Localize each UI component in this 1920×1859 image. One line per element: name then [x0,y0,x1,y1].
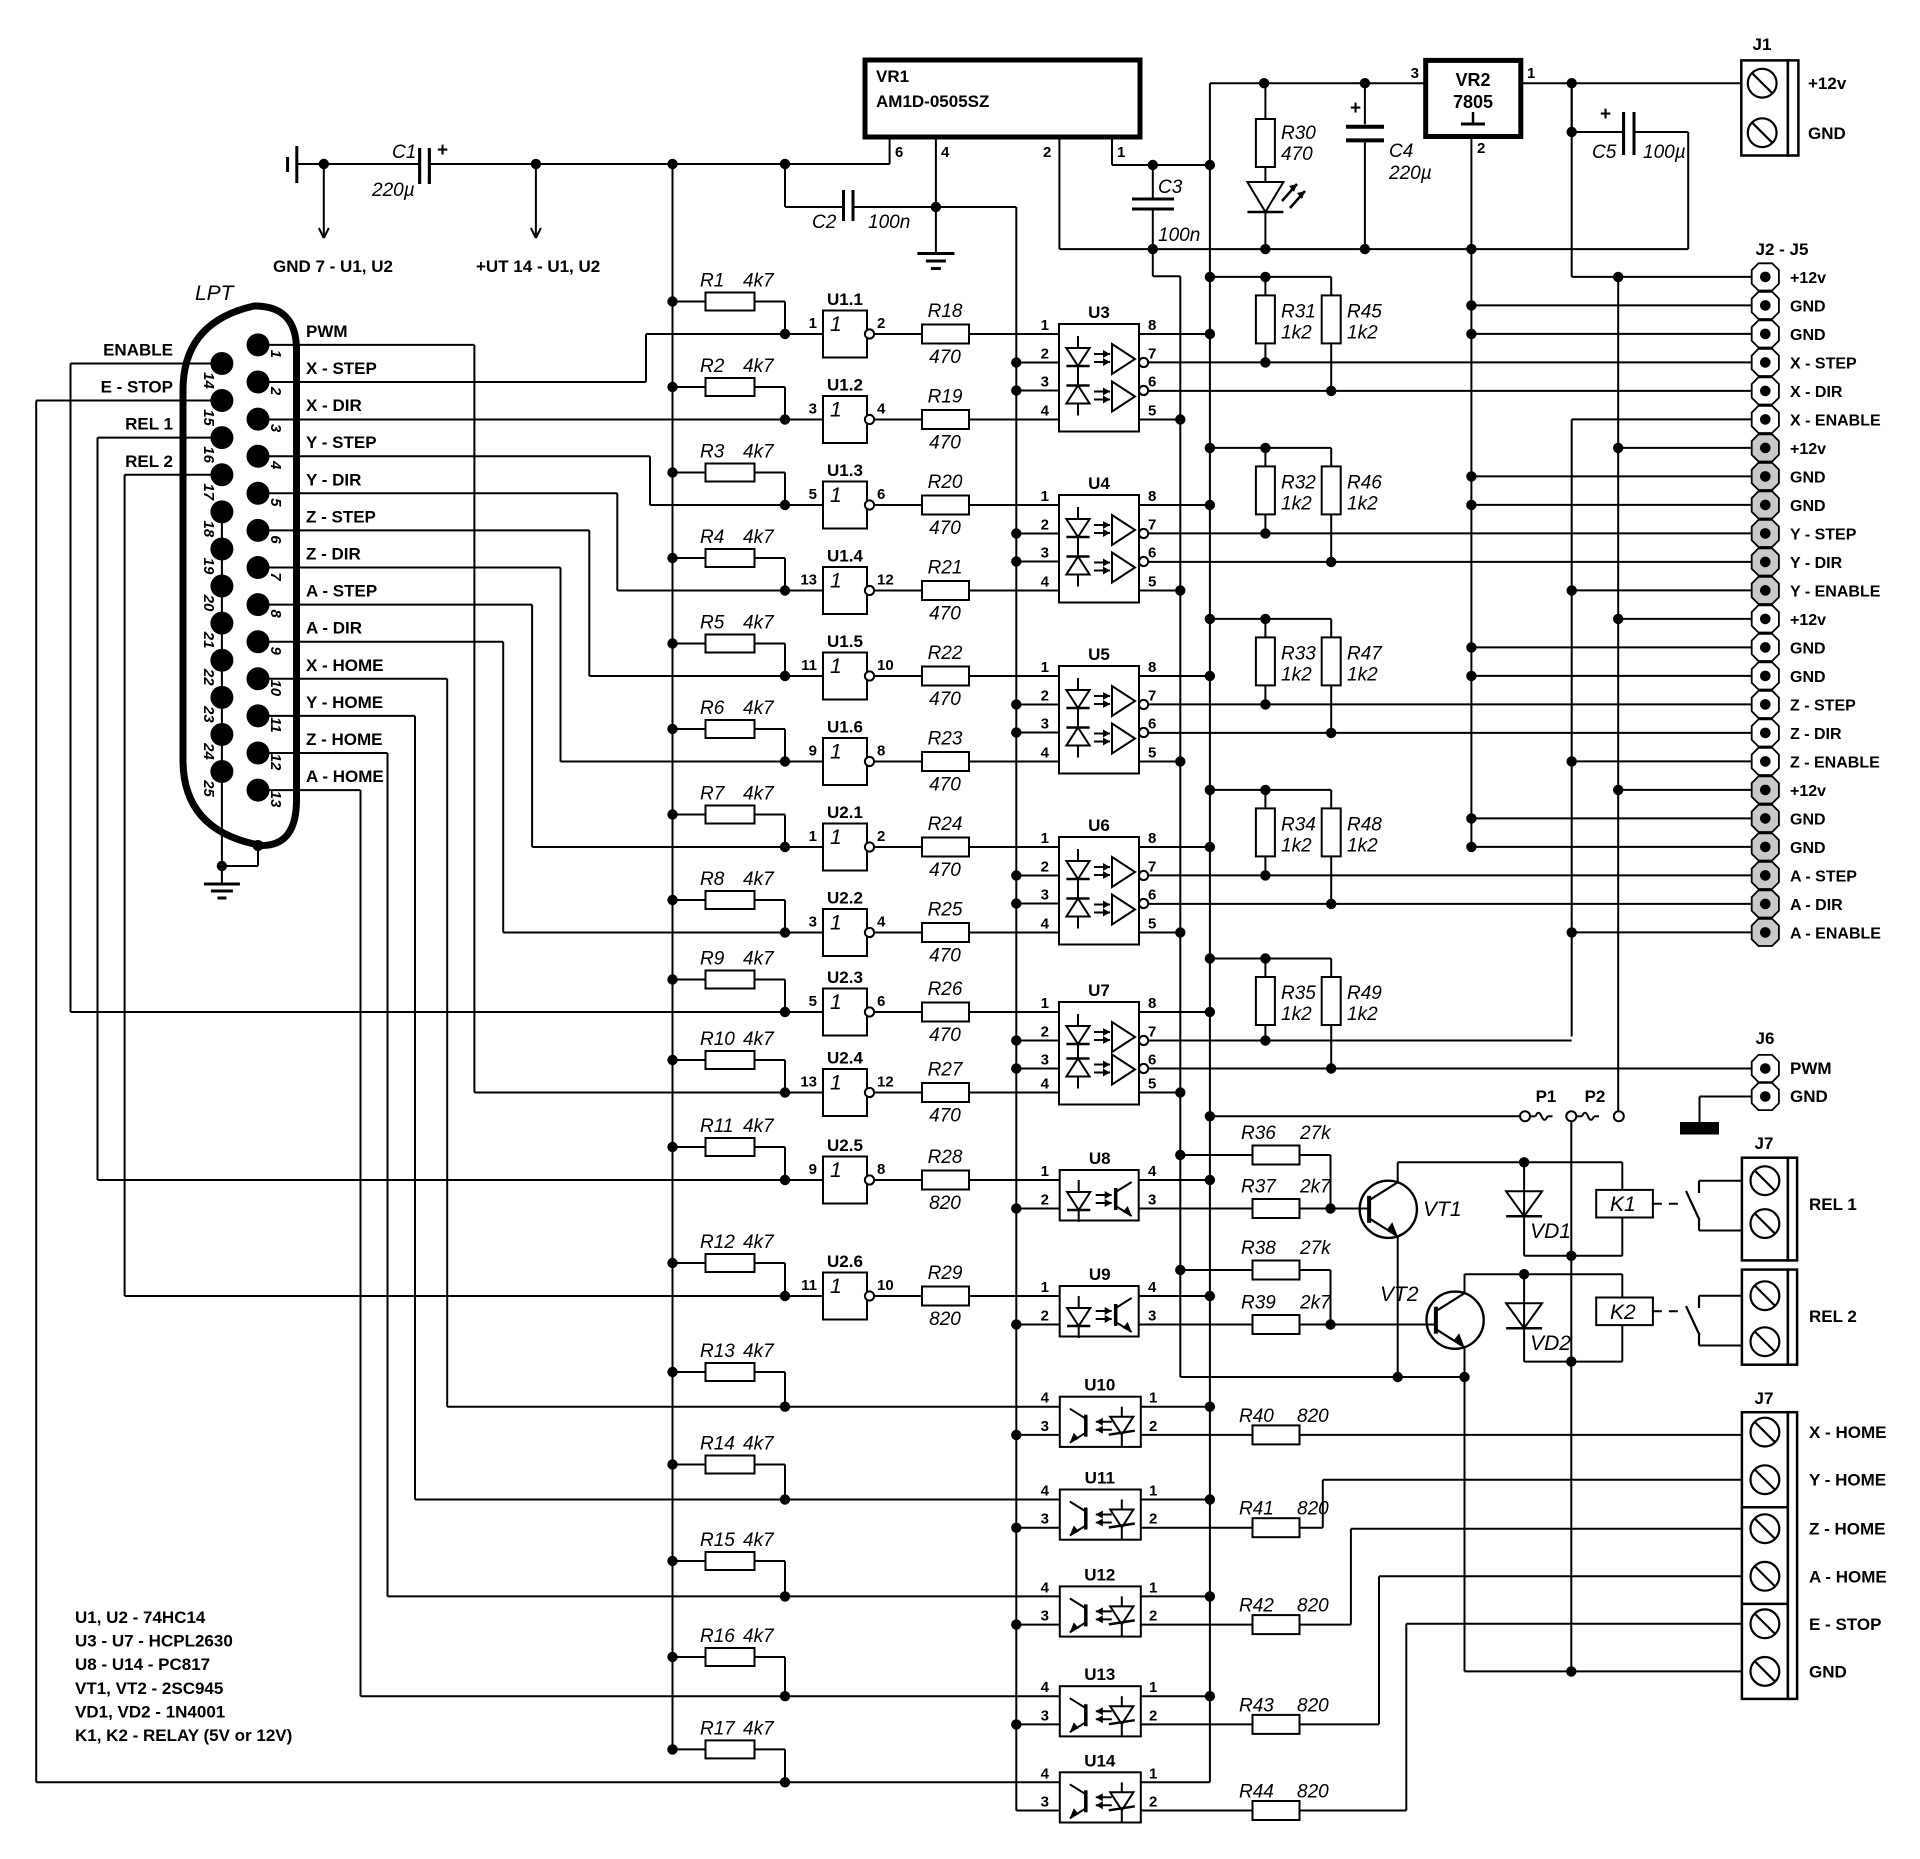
svg-text:1k2: 1k2 [1281,835,1312,856]
svg-text:6: 6 [1148,1052,1156,1069]
svg-text:5: 5 [809,486,817,503]
svg-text:GND: GND [1809,1662,1847,1681]
svg-text:VR1: VR1 [876,67,909,86]
svg-text:X - HOME: X - HOME [306,656,383,675]
svg-text:820: 820 [1297,1406,1329,1427]
svg-text:20: 20 [200,594,217,612]
svg-text:A - STEP: A - STEP [1790,868,1857,885]
svg-text:4: 4 [1041,1579,1050,1596]
svg-text:+: + [437,140,448,161]
svg-text:1: 1 [1117,144,1125,161]
svg-text:4k7: 4k7 [743,1434,775,1455]
svg-text:R26: R26 [928,979,963,1000]
svg-text:2: 2 [1041,517,1049,534]
svg-text:11: 11 [801,657,817,674]
svg-text:U1.4: U1.4 [827,547,863,566]
svg-text:3: 3 [1041,1511,1049,1528]
svg-text:K1, K2 - RELAY (5V or 12V): K1, K2 - RELAY (5V or 12V) [75,1726,292,1745]
svg-text:1: 1 [1527,65,1535,82]
svg-text:1: 1 [1041,995,1049,1012]
svg-text:J1: J1 [1753,35,1772,54]
svg-text:R44: R44 [1239,1782,1274,1803]
svg-text:3: 3 [1411,65,1419,82]
svg-text:4: 4 [877,401,886,418]
svg-text:GND: GND [1790,1087,1828,1106]
svg-text:AM1D-0505SZ: AM1D-0505SZ [876,92,989,111]
svg-text:3: 3 [1041,887,1049,904]
svg-text:J2 - J5: J2 - J5 [1756,240,1809,259]
svg-text:Y - DIR: Y - DIR [1790,555,1843,572]
svg-text:R49: R49 [1347,983,1382,1004]
svg-text:R8: R8 [700,869,725,890]
svg-text:8: 8 [877,743,885,760]
svg-text:1: 1 [1149,1679,1157,1696]
svg-text:U4: U4 [1088,474,1110,493]
svg-text:24: 24 [200,742,217,760]
svg-text:1k2: 1k2 [1347,1004,1378,1025]
svg-text:E - STOP: E - STOP [101,378,173,397]
svg-text:R30: R30 [1281,123,1316,144]
svg-text:U2.1: U2.1 [827,803,863,822]
svg-text:Z - STEP: Z - STEP [306,507,376,526]
svg-text:VT1, VT2 - 2SC945: VT1, VT2 - 2SC945 [75,1679,223,1698]
svg-text:Y - STEP: Y - STEP [306,433,377,452]
svg-text:5: 5 [1148,745,1156,762]
svg-text:2: 2 [1149,1707,1157,1724]
svg-text:6: 6 [877,486,885,503]
svg-text:4: 4 [267,460,284,470]
svg-text:+12v: +12v [1790,783,1826,800]
svg-text:1k2: 1k2 [1347,322,1378,343]
svg-text:R46: R46 [1347,472,1382,493]
svg-text:R33: R33 [1281,643,1316,664]
svg-text:4k7: 4k7 [743,1718,775,1739]
svg-text:1: 1 [267,350,284,358]
svg-text:1k2: 1k2 [1281,664,1312,685]
svg-text:1: 1 [830,1159,842,1182]
svg-text:3: 3 [809,914,817,931]
svg-text:U3: U3 [1088,303,1110,322]
svg-text:1: 1 [1041,659,1049,676]
svg-text:R31: R31 [1281,301,1316,322]
svg-text:470: 470 [929,1025,961,1046]
svg-text:15: 15 [200,409,217,426]
svg-text:2: 2 [1149,1794,1157,1811]
svg-text:1k2: 1k2 [1281,1004,1312,1025]
svg-text:U5: U5 [1088,645,1110,664]
svg-text:2: 2 [1149,1608,1157,1625]
svg-text:R18: R18 [928,301,963,322]
svg-text:1: 1 [1041,1279,1049,1296]
svg-text:820: 820 [929,1193,961,1214]
svg-text:VR2: VR2 [1455,70,1490,90]
svg-text:6: 6 [877,993,885,1010]
svg-text:R17: R17 [700,1718,736,1739]
svg-text:R28: R28 [928,1147,963,1168]
svg-text:U9: U9 [1089,1265,1111,1284]
svg-text:4: 4 [1041,1483,1050,1500]
svg-text:8: 8 [1148,830,1156,847]
svg-text:1: 1 [1149,1390,1157,1407]
svg-text:12: 12 [267,754,284,771]
svg-text:10: 10 [267,679,284,696]
svg-text:4: 4 [1041,745,1050,762]
svg-text:3: 3 [1041,374,1049,391]
svg-text:23: 23 [200,705,217,723]
svg-text:4k7: 4k7 [743,1530,775,1551]
svg-text:PWM: PWM [1790,1059,1832,1078]
svg-text:3: 3 [1041,545,1049,562]
svg-text:R12: R12 [700,1232,735,1253]
svg-text:X - DIR: X - DIR [1790,384,1843,401]
svg-text:Y - HOME: Y - HOME [1809,1471,1886,1490]
svg-text:X - ENABLE: X - ENABLE [1790,412,1881,429]
svg-text:7: 7 [1148,859,1156,876]
svg-text:1: 1 [809,315,817,332]
svg-text:2: 2 [267,386,284,396]
svg-text:GND: GND [1790,327,1826,344]
svg-text:4: 4 [1148,1279,1157,1296]
svg-text:2: 2 [1477,140,1485,157]
svg-text:4k7: 4k7 [743,527,775,548]
svg-text:R27: R27 [928,1060,964,1081]
svg-text:2k7: 2k7 [1299,1293,1332,1314]
svg-text:R34: R34 [1281,814,1316,835]
svg-text:6: 6 [267,535,284,544]
svg-text:R4: R4 [700,527,724,548]
svg-text:+12v: +12v [1790,270,1826,287]
svg-text:11: 11 [267,717,284,733]
svg-text:R47: R47 [1347,643,1383,664]
svg-text:1: 1 [830,313,842,336]
svg-text:2: 2 [1149,1511,1157,1528]
svg-text:R36: R36 [1241,1123,1276,1144]
svg-text:R9: R9 [700,949,725,970]
svg-text:1: 1 [830,991,842,1014]
svg-text:7: 7 [1148,688,1156,705]
svg-text:1: 1 [830,1275,842,1298]
svg-text:+UT 14 - U1, U2: +UT 14 - U1, U2 [476,257,600,276]
svg-text:1: 1 [809,828,817,845]
svg-text:R35: R35 [1281,983,1316,1004]
svg-text:R11: R11 [700,1116,733,1137]
svg-text:470: 470 [929,689,961,710]
svg-text:5: 5 [809,993,817,1010]
svg-text:GND: GND [1790,298,1826,315]
svg-text:GND: GND [1790,811,1826,828]
svg-text:470: 470 [929,1106,961,1127]
svg-text:X - STEP: X - STEP [306,359,377,378]
svg-text:1: 1 [830,912,842,935]
svg-text:3: 3 [1041,1794,1049,1811]
svg-text:4k7: 4k7 [743,271,775,292]
svg-text:U11: U11 [1085,1469,1115,1488]
svg-text:R6: R6 [700,698,725,719]
svg-text:3: 3 [1148,1308,1156,1325]
svg-text:LPT: LPT [195,282,236,305]
svg-text:6: 6 [1148,716,1156,733]
svg-text:2: 2 [1149,1418,1157,1435]
svg-text:8: 8 [1148,317,1156,334]
svg-text:8: 8 [1148,995,1156,1012]
svg-text:4: 4 [1041,1076,1050,1093]
svg-text:470: 470 [929,347,961,368]
svg-text:R42: R42 [1239,1596,1274,1617]
svg-text:C1: C1 [392,142,416,163]
svg-text:+: + [1350,98,1361,119]
svg-text:+12v: +12v [1808,74,1847,93]
svg-text:Y - STEP: Y - STEP [1790,526,1857,543]
svg-text:REL 1: REL 1 [1809,1195,1857,1214]
svg-text:6: 6 [1148,374,1156,391]
svg-text:820: 820 [1297,1596,1329,1617]
svg-text:Y - ENABLE: Y - ENABLE [1790,583,1881,600]
svg-text:+: + [1600,104,1611,125]
svg-text:J7: J7 [1755,1389,1774,1408]
svg-text:E - STOP: E - STOP [1809,1615,1881,1634]
svg-text:ENABLE: ENABLE [103,340,173,359]
svg-text:A - ENABLE: A - ENABLE [1790,925,1881,942]
svg-text:2: 2 [1041,688,1049,705]
svg-text:R48: R48 [1347,814,1382,835]
svg-text:1: 1 [1041,1163,1049,1180]
svg-text:1k2: 1k2 [1347,493,1378,514]
svg-text:7: 7 [267,572,284,581]
svg-text:6: 6 [1148,545,1156,562]
svg-text:2k7: 2k7 [1299,1177,1332,1198]
svg-text:7: 7 [1148,517,1156,534]
svg-text:1: 1 [830,484,842,507]
svg-text:U2.2: U2.2 [827,889,863,908]
svg-text:U7: U7 [1088,981,1110,1000]
svg-text:3: 3 [1041,1418,1049,1435]
svg-text:820: 820 [1297,1782,1329,1803]
svg-text:1: 1 [1041,317,1049,334]
svg-text:Z - HOME: Z - HOME [306,730,383,749]
svg-text:R40: R40 [1239,1406,1274,1427]
svg-text:GND: GND [1790,640,1826,657]
svg-text:1: 1 [830,655,842,678]
svg-text:4k7: 4k7 [743,442,775,463]
svg-text:4k7: 4k7 [743,1626,775,1647]
svg-text:R2: R2 [700,356,725,377]
svg-text:820: 820 [929,1309,961,1330]
svg-text:A - STEP: A - STEP [306,582,377,601]
svg-text:U2.3: U2.3 [827,968,863,987]
svg-text:R1: R1 [700,271,724,292]
svg-text:3: 3 [1041,1608,1049,1625]
svg-text:R13: R13 [700,1341,735,1362]
svg-text:5: 5 [1148,403,1156,420]
svg-text:A - DIR: A - DIR [1790,897,1843,914]
svg-text:R25: R25 [928,900,963,921]
svg-text:4k7: 4k7 [743,356,775,377]
svg-text:470: 470 [929,860,961,881]
svg-text:7: 7 [1148,1024,1156,1041]
svg-text:4k7: 4k7 [743,698,775,719]
svg-text:C5: C5 [1592,142,1617,163]
svg-text:13: 13 [267,791,284,808]
svg-text:U1.2: U1.2 [827,376,863,395]
svg-text:2: 2 [1041,1308,1049,1325]
svg-text:1k2: 1k2 [1281,493,1312,514]
svg-text:13: 13 [800,1074,817,1091]
svg-text:A - HOME: A - HOME [306,767,384,786]
svg-text:10: 10 [877,1277,894,1294]
svg-text:U8: U8 [1089,1149,1111,1168]
svg-text:8: 8 [267,609,284,618]
svg-text:18: 18 [200,521,217,538]
svg-text:2: 2 [1041,346,1049,363]
svg-text:J6: J6 [1756,1029,1775,1048]
svg-text:Z - DIR: Z - DIR [1790,726,1842,743]
svg-text:VT1: VT1 [1423,1198,1462,1221]
svg-text:5: 5 [1148,1076,1156,1093]
svg-text:2: 2 [877,828,885,845]
svg-text:2: 2 [1041,859,1049,876]
svg-text:2: 2 [1041,1024,1049,1041]
svg-text:1: 1 [830,826,842,849]
svg-text:4k7: 4k7 [743,1341,775,1362]
svg-text:R16: R16 [700,1626,735,1647]
svg-text:R10: R10 [700,1029,735,1050]
svg-text:9: 9 [809,743,817,760]
svg-text:R20: R20 [928,472,963,493]
svg-text:K1: K1 [1610,1193,1636,1216]
svg-text:470: 470 [929,518,961,539]
svg-text:6: 6 [895,144,903,161]
svg-text:4: 4 [1041,1765,1050,1782]
svg-text:1: 1 [1041,830,1049,847]
svg-text:+12v: +12v [1790,441,1826,458]
svg-text:1k2: 1k2 [1347,664,1378,685]
svg-text:REL 2: REL 2 [125,452,173,471]
svg-text:100n: 100n [868,212,910,233]
svg-text:PWM: PWM [306,322,348,341]
svg-text:5: 5 [267,498,284,507]
svg-text:3: 3 [1041,716,1049,733]
svg-text:1: 1 [830,741,842,764]
svg-text:1: 1 [1149,1483,1157,1500]
svg-text:VT2: VT2 [1380,1283,1419,1306]
svg-text:4k7: 4k7 [743,613,775,634]
svg-text:1: 1 [1149,1765,1157,1782]
svg-text:1: 1 [1149,1579,1157,1596]
svg-text:13: 13 [800,572,817,589]
svg-text:R38: R38 [1241,1238,1276,1259]
svg-text:GND: GND [1790,840,1826,857]
svg-text:U6: U6 [1088,816,1110,835]
svg-text:11: 11 [801,1277,817,1294]
svg-text:REL 2: REL 2 [1809,1307,1857,1326]
svg-text:GND: GND [1808,124,1846,143]
svg-text:3: 3 [1148,1192,1156,1209]
svg-text:27k: 27k [1299,1123,1332,1144]
svg-text:Y - HOME: Y - HOME [306,693,383,712]
svg-text:R24: R24 [928,814,963,835]
svg-text:GND 7 - U1, U2: GND 7 - U1, U2 [273,257,393,276]
svg-text:820: 820 [1297,1695,1329,1716]
svg-text:4k7: 4k7 [743,1232,775,1253]
svg-text:14: 14 [200,372,217,389]
svg-text:470: 470 [929,775,961,796]
svg-text:470: 470 [929,604,961,625]
svg-text:4: 4 [1041,574,1050,591]
svg-text:7805: 7805 [1453,92,1493,112]
svg-text:1k2: 1k2 [1347,835,1378,856]
svg-text:8: 8 [1148,659,1156,676]
svg-text:R45: R45 [1347,301,1382,322]
svg-text:4: 4 [1041,403,1050,420]
svg-text:220µ: 220µ [371,180,415,201]
svg-text:U3 - U7 - HCPL2630: U3 - U7 - HCPL2630 [75,1632,233,1651]
svg-text:U1.1: U1.1 [827,290,863,309]
svg-text:6: 6 [1148,887,1156,904]
svg-text:19: 19 [200,558,217,575]
svg-text:3: 3 [809,401,817,418]
svg-text:VD2: VD2 [1530,1332,1571,1355]
svg-text:1: 1 [1041,488,1049,505]
svg-text:GND: GND [1790,498,1826,515]
svg-text:9: 9 [809,1161,817,1178]
svg-text:17: 17 [200,483,217,500]
svg-text:X - DIR: X - DIR [306,396,362,415]
svg-text:7: 7 [1148,346,1156,363]
svg-text:12: 12 [877,1074,894,1091]
svg-text:U1.6: U1.6 [827,718,863,737]
svg-text:22: 22 [200,668,217,686]
svg-text:8: 8 [877,1161,885,1178]
svg-text:C3: C3 [1158,177,1183,198]
svg-text:21: 21 [200,631,217,649]
svg-text:Z - ENABLE: Z - ENABLE [1790,754,1880,771]
svg-text:P2: P2 [1585,1087,1606,1106]
svg-text:5: 5 [1148,574,1156,591]
svg-text:3: 3 [1041,1052,1049,1069]
svg-text:R5: R5 [700,613,725,634]
svg-text:X - HOME: X - HOME [1809,1423,1886,1442]
svg-text:3: 3 [267,424,284,433]
svg-text:J7: J7 [1755,1134,1774,1153]
svg-text:+12v: +12v [1790,612,1826,629]
svg-text:4: 4 [941,144,950,161]
svg-text:U14: U14 [1084,1751,1116,1770]
svg-text:REL 1: REL 1 [125,415,173,434]
svg-text:1: 1 [830,399,842,422]
svg-text:12: 12 [877,572,894,589]
svg-text:2: 2 [1043,144,1051,161]
svg-text:VD1: VD1 [1530,1220,1571,1243]
svg-text:2: 2 [877,315,885,332]
svg-text:470: 470 [929,946,961,967]
svg-text:470: 470 [1281,144,1313,165]
svg-text:4k7: 4k7 [743,949,775,970]
svg-text:R14: R14 [700,1434,735,1455]
svg-text:U1.3: U1.3 [827,461,863,480]
svg-text:Z - STEP: Z - STEP [1790,697,1856,714]
svg-text:U2.4: U2.4 [827,1049,863,1068]
svg-text:4: 4 [1041,1679,1050,1696]
svg-text:2: 2 [1041,1192,1049,1209]
svg-text:16: 16 [200,446,217,463]
svg-text:4k7: 4k7 [743,1029,775,1050]
svg-text:100n: 100n [1158,225,1200,246]
svg-text:R23: R23 [928,729,963,750]
svg-text:R29: R29 [928,1263,963,1284]
svg-text:Y - DIR: Y - DIR [306,470,361,489]
svg-text:5: 5 [1148,916,1156,933]
svg-text:A - HOME: A - HOME [1809,1567,1887,1586]
